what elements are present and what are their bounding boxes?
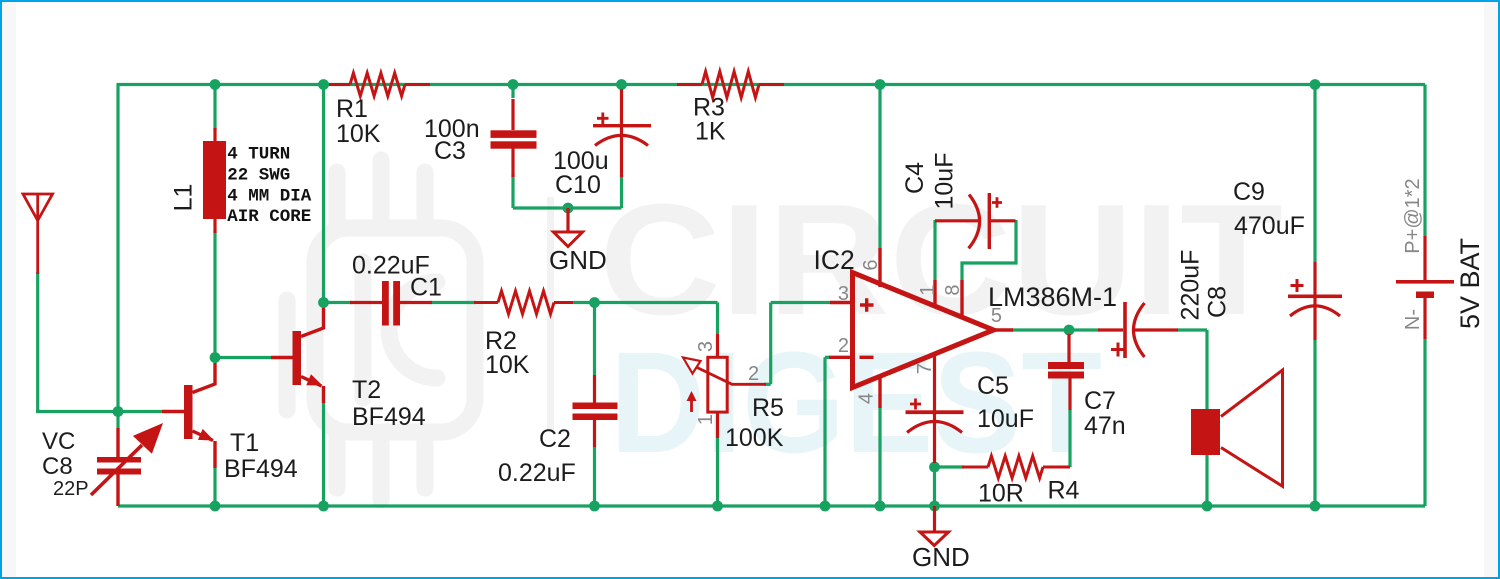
left gray gutter [2,2,16,577]
resistor R4 [962,456,1070,478]
node V+ at C3 [508,79,519,90]
svg-text:22 SWG: 22 SWG [227,166,290,186]
svg-text:GND: GND [549,245,607,275]
wire C9 to rail [1313,340,1316,506]
capacitor C8 220uF [1098,302,1178,358]
svg-text:T2: T2 [352,376,381,404]
capacitor C9 [1288,262,1342,340]
L1 winding note [227,145,312,228]
node rail gnd2 [929,501,940,512]
wire C3 bottom [511,175,514,208]
wire to IC2 pin3 [771,301,830,304]
resistor R3 [677,72,784,98]
wire IC2 pin6 column [878,85,881,249]
svg-text:4 TURN: 4 TURN [227,145,290,165]
wire C10 bottom [620,175,623,208]
svg-text:VC: VC [42,428,75,455]
node antenna-VC-T1 base [113,406,124,417]
svg-text:10K: 10K [485,351,530,379]
svg-text:T1: T1 [230,429,259,457]
node V+ at T2 [318,79,329,90]
wire GND bottom rail [118,504,1425,507]
wire C9 column [1313,85,1316,263]
wire IC2 pin2 to rail [823,357,826,506]
svg-text:C5: C5 [977,372,1009,400]
svg-text:1K: 1K [695,118,726,146]
watermark bar [547,197,554,430]
capacitor C1 [350,281,432,326]
node V+ at L1 [210,79,221,90]
svg-text:1: 1 [695,414,717,425]
svg-text:5V BAT: 5V BAT [1455,238,1485,329]
transistor T2 BF494 [271,308,324,403]
node R2-C2 [589,297,600,308]
capacitor C5 [906,356,964,463]
svg-text:2: 2 [748,363,759,385]
wire pot pin1 to rail [716,438,719,506]
inductor L1 [203,128,226,233]
node rail pin4 [875,501,886,512]
svg-text:47n: 47n [1084,412,1126,440]
node V+ at C9 [1310,79,1321,90]
wire C8 out to speaker [1177,328,1207,331]
node T2 collector [318,297,329,308]
svg-text:P+@1*2: P+@1*2 [1402,178,1424,253]
wire antenna to node [36,410,118,413]
svg-text:10R: 10R [978,480,1024,508]
svg-text:C4: C4 [901,162,929,194]
wire C2 branch bottom [593,447,596,506]
transistor T1 BF494 [162,363,215,468]
svg-text:5: 5 [991,305,1002,327]
svg-text:1: 1 [917,284,939,295]
wire IC2 pin2 stub [825,356,829,359]
wire corner to pot pin3 [716,303,719,335]
svg-text:220uF: 220uF [1177,250,1205,321]
svg-text:C1: C1 [410,274,442,302]
ground GND2 [920,506,949,546]
svg-text:LM386M-1: LM386M-1 [988,282,1117,312]
svg-text:4: 4 [856,393,878,404]
svg-text:470uF: 470uF [1234,212,1305,240]
capacitor C2 [573,375,618,447]
op-amp IC2 LM386M-1 [829,248,1013,408]
svg-text:AIR CORE: AIR CORE [227,207,311,227]
svg-text:C8: C8 [1204,286,1232,318]
node C5-R4 [929,462,940,473]
svg-text:10K: 10K [336,120,381,148]
svg-text:6: 6 [860,259,882,270]
ground GND1 [554,208,583,247]
wire battery bottom [1423,339,1426,506]
svg-text:C9: C9 [1233,178,1265,206]
wire C5 to rail [933,463,936,506]
svg-text:0.22uF: 0.22uF [498,459,576,487]
svg-text:4 MM DIA: 4 MM DIA [227,187,312,207]
wires group [36,85,1425,507]
wire speaker drop [1205,330,1208,506]
svg-text:22P: 22P [53,478,89,500]
svg-text:R4: R4 [1048,477,1080,505]
svg-text:100K: 100K [725,424,784,452]
potentiometer R5 [683,334,766,438]
wire C3 top stub [511,85,514,99]
svg-text:BF494: BF494 [352,403,426,431]
svg-text:N-: N- [1402,309,1424,330]
wire T2 emitter to rail [322,403,325,506]
wire C1 to R2 [430,301,476,304]
svg-text:GND: GND [912,542,970,572]
wire VC C8 branch [116,412,119,429]
node rail speaker [1202,501,1213,512]
wire pot wiper out [764,383,771,386]
node T1 collector [210,352,221,363]
node rail pot [712,501,723,512]
svg-text:R1: R1 [336,95,368,123]
antenna AE1 [23,194,53,274]
svg-text:C10: C10 [555,171,601,199]
node rail C2 [589,501,600,512]
wire C4 left riser [933,220,936,280]
svg-text:L1: L1 [170,184,198,212]
node rail T2 [318,501,329,512]
wire C4 right loop [962,220,1016,280]
svg-text:C2: C2 [539,425,571,453]
svg-text:C8: C8 [42,453,73,480]
wire T2 base link [215,356,271,359]
node rail C9 [1310,501,1321,512]
svg-text:8: 8 [942,284,964,295]
node V+ at C10 [616,79,627,90]
wire left rail drop [116,85,119,412]
wire IC2 output [1012,328,1100,331]
wire V+ top rail [117,83,1426,86]
wire R2 to corner [573,301,718,304]
capacitor C7 [1048,334,1084,410]
capacitor C3 [491,99,537,177]
wire battery top [1423,85,1426,237]
wire R4 left stub [935,465,965,468]
wire C3-C10 gnd link [513,206,622,209]
wire IC2 pin4 to rail [878,407,881,506]
variable capacitor VC C8 [91,423,163,506]
node IC2 output [1064,325,1075,336]
watermark logo [287,160,475,500]
svg-text:C7: C7 [1084,387,1116,415]
resistor R2 [474,291,573,314]
svg-text:7: 7 [914,363,936,374]
svg-text:3: 3 [695,341,717,352]
wire T1 emitter to rail [213,468,216,506]
wire C2 branch top [593,303,596,376]
capacitor C4 [935,193,1016,249]
wire T1 base [118,410,162,413]
node rail pin2 [820,501,831,512]
node V+ at IC2 pin6 [875,79,886,90]
wire wiper riser [769,303,772,385]
wire C7 to R4 [1068,410,1071,467]
node C3-C10 gnd tap [563,203,574,214]
svg-text:10uF: 10uF [977,405,1034,433]
svg-text:C3: C3 [434,137,466,165]
svg-text:2: 2 [838,335,849,357]
svg-text:3: 3 [838,283,849,305]
wire L1 column top [213,85,216,131]
capacitor C10 [593,89,651,177]
right gray gutter [1484,2,1498,577]
svg-text:BF494: BF494 [224,455,298,483]
speaker LS1 [1191,370,1283,486]
svg-text:IC2: IC2 [814,245,855,275]
wire T2 column top [322,85,325,309]
battery BT1 5V [1396,236,1454,339]
svg-text:10uF: 10uF [931,153,959,210]
node rail T1 [210,501,221,512]
wire L1 to T1 collector [213,231,216,363]
wire C1 left [324,301,353,304]
resistor R1 [329,73,430,96]
svg-text:R5: R5 [752,394,784,422]
wire antenna drop [36,272,39,412]
